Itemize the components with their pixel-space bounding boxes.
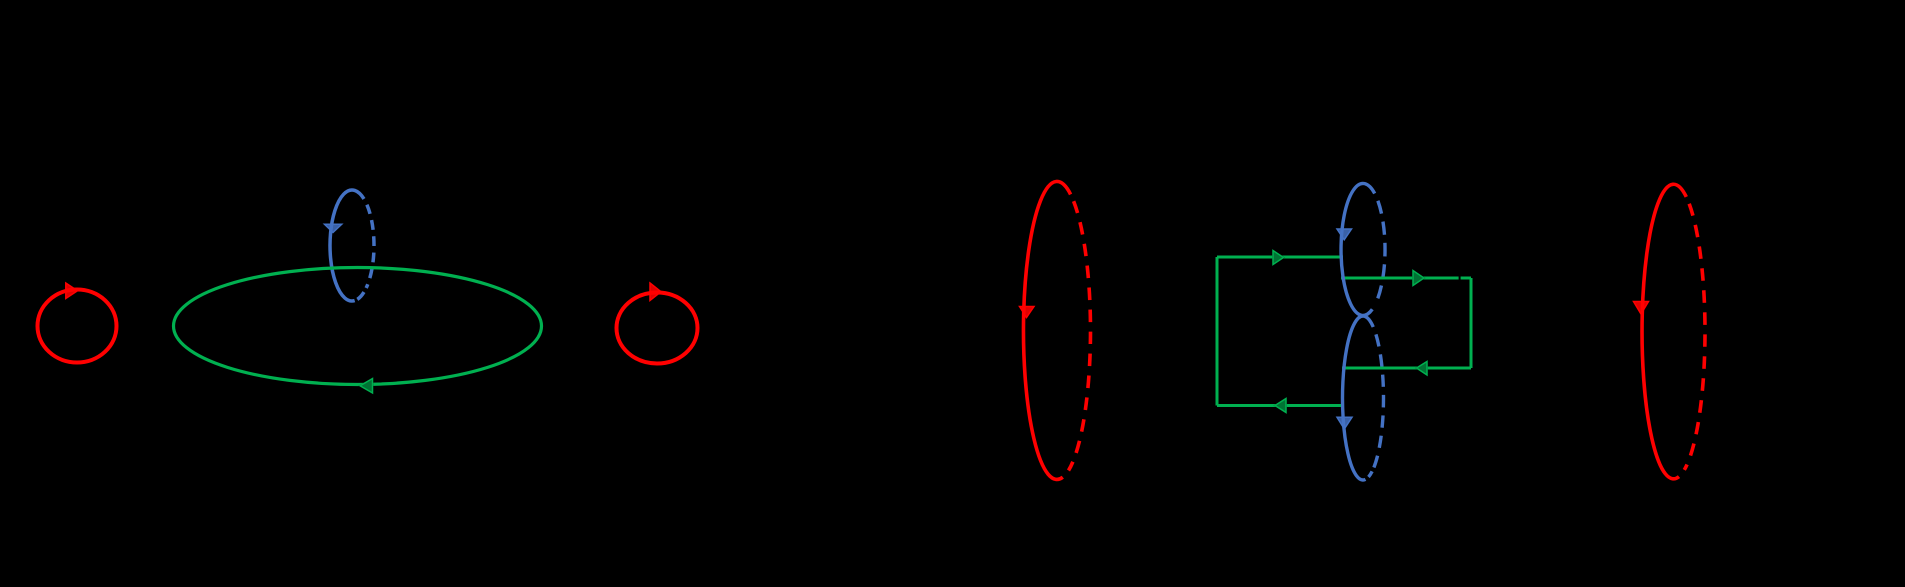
red arrowhead on S1 (pointing down): [1020, 307, 1035, 318]
blue arrowhead on m (panel 1): [325, 224, 342, 232]
green segment upper-right with right arrow: [1341, 271, 1471, 286]
red arrowhead on S2 (pointing down): [1634, 302, 1649, 315]
green square curve g (panel 2): top-left segment with right arrow: [1217, 251, 1343, 265]
green right vertical segment: [1470, 278, 1473, 368]
blue arrowhead on b1 (pointing down): [1337, 229, 1352, 240]
blue circle b2 (lower, panel 2) solid front arc: [1342, 316, 1373, 480]
blue meridian circle m (panel 1) solid front arc: [330, 190, 364, 301]
blue circle b1 (upper, panel 2) dashed back arc: [1375, 194, 1385, 304]
red 2-sphere belt circle S2 (right vertical ellipse, panel 2) dashed back arc: [1684, 197, 1705, 470]
green 0-framed unknot C (large horizontal ellipse, panel 1): [174, 268, 542, 385]
green segment lower-right with left arrow: [1342, 362, 1471, 376]
blue circle b2 (lower, panel 2) dashed back arc: [1373, 327, 1383, 469]
green left vertical segment: [1216, 257, 1219, 406]
red circle K2 (right small circle, panel 1): [617, 283, 698, 364]
green bottom-left segment with left arrow: [1217, 399, 1342, 413]
blue meridian circle m (panel 1) dashed back arc: [364, 199, 374, 288]
red 2-sphere belt circle S1 (left vertical ellipse, panel 2) dashed back arc: [1069, 194, 1091, 470]
blue circle b1 (upper, panel 2) solid front arc: [1341, 183, 1375, 315]
red 2-sphere belt circle S2 solid front arc: [1642, 184, 1686, 479]
blue arrowhead on b2 (pointing down): [1337, 417, 1352, 429]
red 2-sphere belt circle S1 solid front arc: [1023, 181, 1070, 479]
red circle K1 (left small circle, panel 1): [38, 283, 117, 363]
green arrowhead on C (bottom, pointing left): [360, 379, 373, 394]
